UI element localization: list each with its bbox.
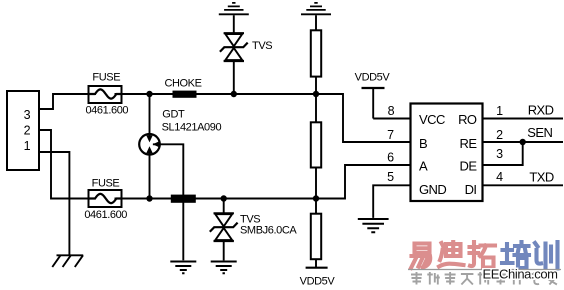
svg-text:VCC: VCC <box>419 112 445 127</box>
svg-text:6: 6 <box>387 151 394 165</box>
svg-text:VDD5V: VDD5V <box>300 276 336 288</box>
svg-text:GDT: GDT <box>162 108 185 120</box>
svg-text:GND: GND <box>419 182 446 197</box>
svg-text:RXD: RXD <box>528 103 554 118</box>
svg-text:TXD: TXD <box>529 170 554 185</box>
svg-text:0461.600: 0461.600 <box>84 209 127 221</box>
svg-text:DE: DE <box>460 159 478 174</box>
svg-text:1: 1 <box>24 139 31 153</box>
svg-text:3: 3 <box>496 147 503 161</box>
svg-text:0461.600: 0461.600 <box>85 105 128 117</box>
svg-text:CHOKE: CHOKE <box>164 77 201 89</box>
svg-text:RE: RE <box>460 136 478 151</box>
svg-text:RO: RO <box>458 112 477 127</box>
svg-text:SEN: SEN <box>527 125 552 140</box>
svg-text:3: 3 <box>24 108 31 122</box>
svg-text:2: 2 <box>496 128 503 142</box>
svg-text:1: 1 <box>496 104 503 118</box>
svg-text:A: A <box>419 159 428 174</box>
svg-text:2: 2 <box>24 123 31 137</box>
svg-text:FUSE: FUSE <box>92 72 120 84</box>
svg-text:TVS: TVS <box>252 40 272 52</box>
svg-text:7: 7 <box>387 128 394 142</box>
svg-text:EEChina.com: EEChina.com <box>483 267 558 282</box>
svg-text:B: B <box>419 136 427 151</box>
svg-text:FUSE: FUSE <box>92 177 120 189</box>
svg-text:SL1421A090: SL1421A090 <box>162 122 222 134</box>
svg-text:4: 4 <box>496 170 503 184</box>
svg-text:5: 5 <box>387 170 394 184</box>
svg-text:DI: DI <box>465 182 477 197</box>
svg-text:VDD5V: VDD5V <box>355 72 391 84</box>
svg-text:SMBJ6.0CA: SMBJ6.0CA <box>240 225 297 237</box>
svg-text:8: 8 <box>388 104 395 118</box>
